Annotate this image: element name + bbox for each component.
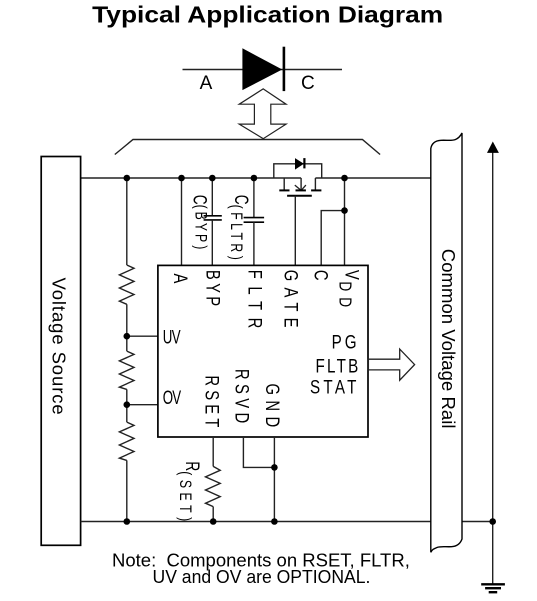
- svg-text:PG: PG: [332, 331, 357, 353]
- arrowhead rail riser: [487, 142, 499, 153]
- svg-text:C(FLTR): C(FLTR): [226, 195, 252, 263]
- double-headed correspondence arrow: [239, 89, 286, 139]
- svg-text:UV: UV: [163, 327, 181, 348]
- op-amp U1 controller IC box: [158, 265, 368, 437]
- svg-text:Voltage Source: Voltage Source: [49, 278, 70, 415]
- wire top rail right segment: [315, 177, 431, 179]
- junction bottom rail / riser: [489, 518, 496, 525]
- wire GATE pin to MOSFET gate: [294, 196, 296, 266]
- junction UV node: [124, 333, 131, 340]
- wire A pin to top rail: [181, 178, 183, 265]
- junction bottom rail / GND: [271, 518, 278, 525]
- capacitor C_BYP: [204, 178, 222, 265]
- svg-text:FLTB: FLTB: [316, 355, 359, 377]
- svg-text:BYP: BYP: [202, 270, 223, 306]
- common voltage rail banner: [431, 133, 462, 552]
- capacitor C_FLTR: [244, 178, 265, 265]
- resistor R_SET: [206, 466, 221, 506]
- junction top rail / A: [178, 175, 185, 182]
- voltage source box: [41, 157, 80, 546]
- wire divider string from top rail: [126, 178, 128, 265]
- junction C / VDD: [341, 207, 348, 214]
- svg-text:R(SET): R(SET): [176, 461, 204, 525]
- junction RSVD/GND: [271, 464, 278, 471]
- svg-text:A: A: [200, 73, 213, 94]
- junction OV node: [124, 401, 131, 408]
- wire RSET pin down: [212, 437, 214, 466]
- junction bottom rail / R_SET: [210, 518, 217, 525]
- junction bottom rail / divider: [124, 518, 131, 525]
- svg-text:OV: OV: [163, 388, 182, 409]
- wire GND pin to bottom rail: [273, 437, 275, 522]
- wire R2 to OV node: [126, 389, 128, 422]
- wire diode D1 anode-cathode horizontal: [183, 69, 343, 71]
- svg-text:Common Voltage Rail: Common Voltage Rail: [438, 249, 459, 429]
- svg-text:C: C: [310, 270, 331, 281]
- wire R_SET to bottom rail: [212, 507, 214, 522]
- svg-text:UV and OV are OPTIONAL.: UV and OV are OPTIONAL.: [153, 566, 371, 587]
- transistor Q1 pass MOSFET: [279, 178, 321, 196]
- svg-text:GND: GND: [262, 384, 283, 428]
- resistor R2 (UV/OV middle): [119, 351, 134, 389]
- wire RSVD pin bend to GND wire: [243, 437, 274, 467]
- wire rail riser to ground: [492, 151, 494, 584]
- diode D1: [242, 47, 284, 91]
- wire C pin bend: [321, 211, 344, 266]
- resistor R1 (UV top): [119, 265, 134, 304]
- diode body diode of Q1: [274, 158, 322, 178]
- junction top rail / divider: [124, 175, 131, 182]
- ground: [481, 584, 505, 592]
- wire UV tap: [127, 335, 158, 337]
- junction top rail / C_FLTR: [251, 175, 258, 182]
- wire R3 to bottom rail: [126, 460, 128, 521]
- svg-text:C: C: [301, 73, 315, 94]
- svg-text:Typical Application Diagram: Typical Application Diagram: [92, 2, 443, 28]
- svg-text:A: A: [169, 274, 190, 284]
- status output arrow PG/FLTB/STAT: [368, 349, 414, 380]
- wire bottom rail: [81, 521, 493, 523]
- bracket over ideal-diode section: [115, 140, 380, 155]
- junction top rail / VDD: [341, 175, 348, 182]
- resistor R3 (OV bottom): [119, 422, 134, 460]
- wire OV tap: [127, 404, 158, 406]
- wire top rail left segment: [81, 177, 302, 179]
- wire R1 to UV node: [126, 304, 128, 351]
- junction top rail / C_BYP: [209, 175, 216, 182]
- svg-text:C(BYP): C(BYP): [189, 195, 211, 253]
- wire VDD pin to top rail: [344, 178, 346, 265]
